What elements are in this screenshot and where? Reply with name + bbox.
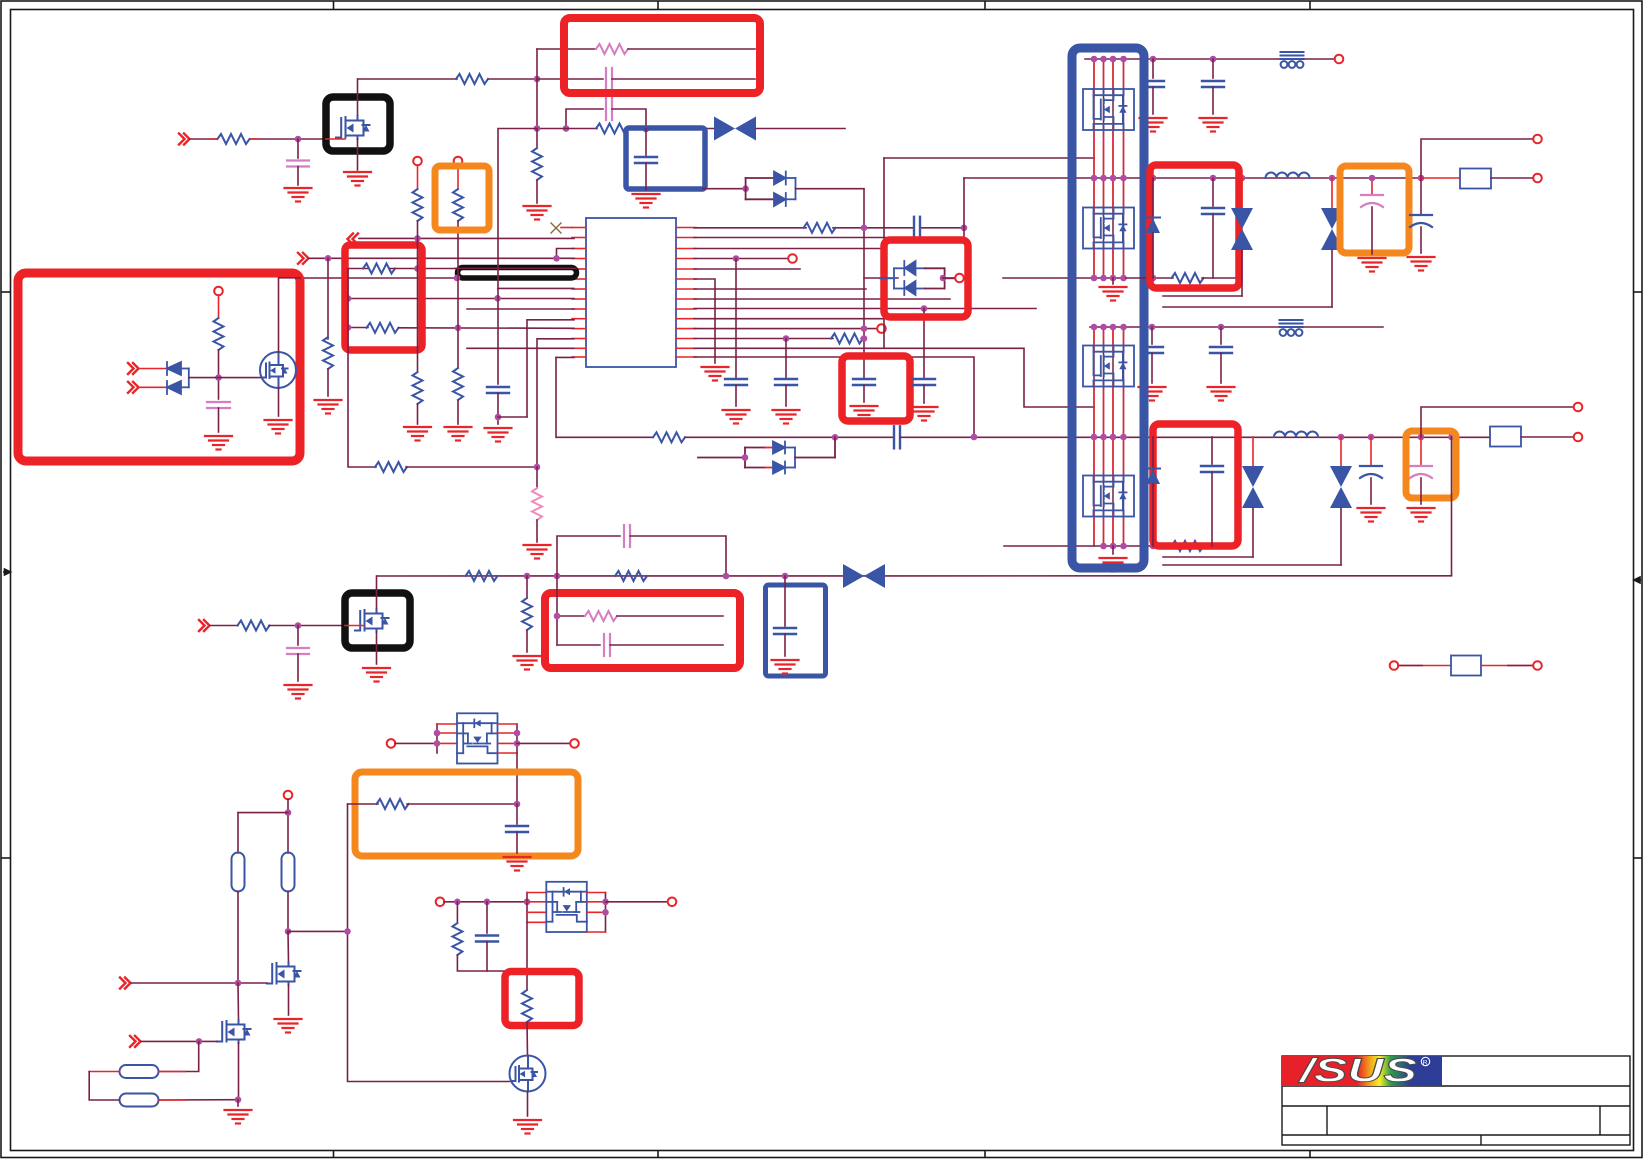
junction xyxy=(345,324,352,331)
wire pin7R row xyxy=(694,288,866,290)
wire xyxy=(536,180,538,203)
wire pin6R row xyxy=(694,279,715,363)
wire pin9R row xyxy=(694,308,1036,310)
wire mosfet verticals seg2 xyxy=(1094,327,1124,546)
wire fb row1 xyxy=(556,576,558,645)
resistor R24 (pink) xyxy=(585,611,617,621)
wire pin3 L xyxy=(557,249,575,259)
wire xyxy=(628,128,714,130)
wire xyxy=(288,930,348,932)
resistor R10 in orange box xyxy=(453,189,463,221)
node circle aux left xyxy=(1390,661,1399,670)
wire pin12 row xyxy=(537,339,574,467)
wire xyxy=(735,385,737,406)
wire xyxy=(527,1092,529,1117)
resistor RP2 (stadium) xyxy=(282,853,295,892)
resistor R20 xyxy=(238,621,270,631)
resistor R18 xyxy=(1172,541,1204,551)
wire xyxy=(488,78,537,80)
wire source to ground xyxy=(278,388,280,416)
ground xyxy=(514,656,541,670)
fuse F2 xyxy=(1490,427,1521,447)
wire pin14R row xyxy=(694,357,974,437)
wire pin6 row xyxy=(300,277,457,279)
junction xyxy=(723,573,730,580)
ferrite bead FB2 xyxy=(1280,320,1303,336)
transistor Q4 circle mosfet xyxy=(510,1056,546,1092)
wire rail1 bottom y278 junctions xyxy=(1091,275,1098,282)
resistor R1 xyxy=(218,134,250,144)
highlight box (red) output filter 1 xyxy=(1150,165,1239,288)
capacitor C25 (pink series) xyxy=(604,634,610,656)
junction xyxy=(495,414,502,421)
junction xyxy=(742,454,749,461)
left border mid arrow xyxy=(3,569,11,575)
ground xyxy=(633,194,660,208)
wire xyxy=(457,221,459,368)
wire xyxy=(407,803,517,805)
wire xyxy=(498,416,527,418)
wire vertical node xyxy=(536,49,538,129)
ground xyxy=(1100,558,1127,572)
ground xyxy=(485,428,512,442)
node chevron in2 xyxy=(128,382,139,393)
junction xyxy=(921,305,928,312)
ground xyxy=(285,188,312,202)
wire drain up xyxy=(357,79,359,115)
highlight box (red) gate resistor xyxy=(505,972,579,1026)
highlight box (red) supervisor xyxy=(18,273,300,461)
wire xyxy=(218,350,220,399)
node VIN1 input chevron xyxy=(179,134,190,145)
wire xyxy=(861,338,864,340)
diode D3 xyxy=(167,362,189,375)
wire xyxy=(287,931,290,962)
resistor RP4 (stadium) xyxy=(120,1094,159,1107)
junction xyxy=(235,1096,242,1103)
resistor R21 xyxy=(466,571,498,581)
resistor R22 chain down xyxy=(526,576,528,598)
wire xyxy=(237,892,239,984)
wire rail1 top y59 xyxy=(1085,58,1281,60)
ground xyxy=(265,420,292,434)
junction xyxy=(494,295,501,302)
node circle xyxy=(284,791,293,800)
op-amp U1 controller IC xyxy=(586,218,676,367)
junctions rail3 xyxy=(1091,324,1098,331)
resistor R11 xyxy=(453,368,463,400)
wire source to ground xyxy=(357,139,359,170)
wire pin7 row xyxy=(498,287,574,289)
resistor R6 xyxy=(363,264,395,274)
wire xyxy=(1304,58,1334,60)
wire xyxy=(189,377,261,379)
wire rail2 bottom y546 xyxy=(1004,545,1236,547)
wire drain up xyxy=(376,576,378,608)
wire pin11 row xyxy=(348,327,368,329)
capacitor C4 xyxy=(635,157,657,163)
wire xyxy=(139,368,167,370)
wire pack1 right bracket xyxy=(498,724,517,753)
wire pack2 down xyxy=(526,922,528,990)
wire xyxy=(237,1100,239,1106)
wire xyxy=(269,625,345,627)
node circle pack2 left xyxy=(436,898,445,907)
wire xyxy=(395,742,437,744)
junction xyxy=(1150,275,1157,282)
wire xyxy=(923,385,925,403)
left border tick 1 xyxy=(1,291,11,293)
wire pack2 right bracket xyxy=(587,893,606,933)
wire pin1 stub xyxy=(561,227,572,229)
wire xyxy=(237,983,240,1020)
wire xyxy=(863,189,865,379)
wire pack1 to snub xyxy=(516,753,518,804)
wire xyxy=(89,1072,119,1101)
transistor Q6 mosfet xyxy=(217,1020,251,1043)
junction xyxy=(344,928,351,935)
wire pack1 left bracket xyxy=(437,724,457,753)
wire pack2 left bracket xyxy=(527,893,546,923)
left border tick 2 xyxy=(1,857,11,859)
wire maroon part xyxy=(1400,665,1422,667)
ground xyxy=(275,1019,302,1033)
capacitor C12 drop xyxy=(1152,59,1154,78)
resistor R12 xyxy=(323,337,333,369)
node circle xyxy=(877,324,886,333)
resistor RP3 (stadium) xyxy=(120,1065,159,1078)
wire pin2 row xyxy=(359,237,574,239)
wire rail1 left corner xyxy=(963,178,965,240)
node circle xyxy=(1335,55,1344,64)
wire xyxy=(297,654,299,681)
transistor module M4 xyxy=(1083,476,1134,517)
ground xyxy=(851,406,878,420)
wire R12 chain xyxy=(327,258,329,339)
wire pin2R row xyxy=(694,237,957,239)
capacitor C11 xyxy=(913,379,935,385)
junction xyxy=(1329,175,1336,182)
ground xyxy=(1200,118,1227,132)
node chevron in1 xyxy=(128,363,139,374)
top border tick 2 xyxy=(657,1,659,10)
ground xyxy=(315,400,342,414)
wire gate xyxy=(326,138,345,140)
transistor Q1 mosfet xyxy=(336,116,370,139)
ground xyxy=(205,436,232,450)
junction xyxy=(524,968,531,975)
resistor R25 xyxy=(377,799,409,809)
junction xyxy=(563,125,570,132)
top border tick 1 xyxy=(333,1,335,10)
IC left pin stubs xyxy=(572,228,586,358)
wire pin1R row xyxy=(694,227,806,229)
capacitor C18 polarized (pink) xyxy=(1361,175,1383,254)
highlight box (orange) snubber M xyxy=(355,772,578,856)
wire stub xyxy=(159,1099,186,1101)
wire diode bracket xyxy=(188,369,190,388)
ground xyxy=(1208,387,1235,401)
ground xyxy=(285,685,312,699)
ground xyxy=(225,1110,252,1124)
inductor L2 xyxy=(1274,432,1318,438)
wire xyxy=(417,404,419,424)
wire pin13R row xyxy=(694,348,1094,407)
wire over bus xyxy=(455,267,576,269)
wire xyxy=(237,813,239,853)
wire rail2 right riser xyxy=(1451,437,1453,576)
ground xyxy=(723,410,750,424)
junction xyxy=(643,126,650,133)
junction xyxy=(742,185,749,192)
wire xyxy=(390,268,456,270)
wire xyxy=(287,892,289,932)
wire xyxy=(526,1022,529,1056)
junction xyxy=(940,275,947,282)
capacitor C23 (pink) xyxy=(287,648,309,654)
wire to connector 2 xyxy=(1421,407,1573,437)
resistor R15 xyxy=(214,318,224,350)
junction xyxy=(235,980,242,987)
wire xyxy=(297,167,299,186)
node test point circle xyxy=(454,157,463,166)
wire top to snubber xyxy=(537,48,596,50)
transistor pack U2 xyxy=(457,713,498,763)
ASUS logo xyxy=(1282,1052,1442,1089)
wire xyxy=(348,803,379,805)
wire xyxy=(131,982,267,984)
wire xyxy=(900,436,1490,438)
junction xyxy=(783,335,790,342)
junction xyxy=(553,255,560,262)
ground xyxy=(1408,508,1435,522)
node test point circle xyxy=(413,157,422,166)
wire xyxy=(628,48,755,50)
transistor Q3 mosfet xyxy=(355,609,389,632)
node circle xyxy=(1533,174,1542,183)
wire xyxy=(557,615,585,617)
wire loop cap xyxy=(566,109,603,129)
junction xyxy=(345,295,352,302)
fuse F3 xyxy=(1451,656,1481,676)
wire xyxy=(943,277,955,279)
wire rail1 bottom continuation xyxy=(1126,277,1173,279)
diode TVS D7 (bowtie) xyxy=(1163,178,1253,296)
wire xyxy=(238,1043,240,1100)
capacitor C24 (pink series) xyxy=(624,525,630,547)
junction xyxy=(832,434,839,441)
wire xyxy=(417,221,419,372)
wire pin5 row xyxy=(348,268,368,270)
capacitor C10 xyxy=(853,379,875,385)
wire xyxy=(89,1071,119,1073)
node input chevron xyxy=(298,253,309,264)
ground xyxy=(1100,287,1127,301)
highlight box (red) snubber xyxy=(564,18,760,93)
junction xyxy=(514,801,521,808)
highlight box (red) output filter 2 xyxy=(1153,424,1238,546)
bus cable (black) xyxy=(458,268,577,279)
ground xyxy=(363,668,390,682)
highlight box (blue) cap 2 xyxy=(766,585,826,676)
wire xyxy=(785,385,787,406)
wire pin4 row xyxy=(309,257,574,259)
wire xyxy=(358,78,457,80)
capacitor C27 xyxy=(506,804,528,853)
capacitor C8 xyxy=(725,379,747,385)
junction xyxy=(285,928,292,935)
wire xyxy=(536,520,538,542)
junction xyxy=(534,125,541,132)
wire pin14 row xyxy=(556,356,574,358)
wire xyxy=(417,165,419,189)
wire xyxy=(139,386,167,388)
junction xyxy=(285,809,292,816)
wire gate stub xyxy=(345,625,364,627)
junction xyxy=(554,613,561,620)
capacitor C28 xyxy=(476,902,498,971)
wire resistor to ground chain xyxy=(536,129,538,149)
wire xyxy=(630,536,726,576)
wire xyxy=(288,985,290,1015)
ground xyxy=(773,410,800,424)
right border tick 2 xyxy=(1634,857,1643,859)
wire rail3 y327 xyxy=(1090,326,1279,328)
capacitor C16 series xyxy=(894,426,900,448)
resistor R8 xyxy=(413,189,423,221)
diode TVS D12 (bowtie inline) xyxy=(843,564,885,588)
junction xyxy=(554,573,561,580)
wire rail4 y437 from pin14 xyxy=(556,357,653,437)
highlight box (red) dividers xyxy=(345,245,422,350)
highlight box (orange) xyxy=(435,166,489,230)
resistor R27 xyxy=(522,990,532,1022)
junction xyxy=(861,225,868,232)
junction xyxy=(861,335,868,342)
junctions rail4 xyxy=(971,434,978,441)
junction xyxy=(454,275,461,282)
wire xyxy=(833,227,914,229)
capacitor C17 xyxy=(1202,178,1224,278)
wire xyxy=(617,615,723,617)
capacitor C1 (pink) xyxy=(287,161,309,167)
wire x348 vertical xyxy=(348,269,376,468)
wire xyxy=(645,129,647,157)
resistor R5 xyxy=(532,148,542,180)
capacitor C15 drop xyxy=(1220,327,1222,344)
top border tick 3 xyxy=(984,1,986,10)
node signal chevron left xyxy=(348,234,359,245)
wire pin10R row xyxy=(694,318,890,320)
wire red segments at modules xyxy=(1094,63,1124,542)
resistor R4 xyxy=(596,124,628,134)
wire xyxy=(756,128,845,130)
node circle xyxy=(788,254,797,263)
wire xyxy=(1491,177,1533,179)
diode D5 pair xyxy=(880,261,955,295)
ground stub xyxy=(1112,546,1114,554)
resistor RP1 (stadium) xyxy=(232,853,245,892)
junction xyxy=(733,255,740,262)
junction xyxy=(295,136,302,143)
transistor Q5 mosfet xyxy=(267,962,301,985)
wire xyxy=(536,467,538,488)
wire drain up and out xyxy=(279,278,301,352)
no-connect X pin1 xyxy=(551,223,561,233)
wire xyxy=(1398,665,1451,667)
wire source down xyxy=(376,632,378,664)
ground xyxy=(772,660,799,674)
ground xyxy=(524,545,551,559)
ground xyxy=(1408,257,1435,271)
wire xyxy=(159,1041,199,1071)
transistor module M2 xyxy=(1083,208,1134,249)
bottom border tick 3 xyxy=(984,1151,986,1158)
IC right pin stubs xyxy=(676,228,696,358)
wire pin10 row xyxy=(527,320,574,417)
wire xyxy=(612,78,755,80)
ground xyxy=(504,857,531,871)
highlight box (red) xyxy=(842,356,910,421)
resistor R2 xyxy=(456,74,488,84)
node chevron xyxy=(130,1036,141,1047)
wire xyxy=(287,799,289,853)
node circle xyxy=(955,274,964,283)
wire xyxy=(457,400,459,424)
ground xyxy=(404,427,431,441)
wire pin8 row xyxy=(348,298,574,300)
junctions rail2 xyxy=(1091,175,1098,182)
highlight box (blue) power block xyxy=(1072,48,1144,568)
wire pin8R row xyxy=(694,298,950,300)
node circle aux right xyxy=(1533,661,1542,670)
highlight box (blue) cap xyxy=(626,128,705,189)
wire stub xyxy=(159,1071,186,1073)
diode TVS D11 (bowtie) xyxy=(1163,437,1352,565)
bottom border tick 4 xyxy=(1309,1151,1311,1158)
wire maroon part xyxy=(1508,665,1533,667)
wire pin3R row xyxy=(694,248,884,250)
capacitor C9 xyxy=(775,379,797,385)
right border tick 1 xyxy=(1634,291,1643,293)
wire xyxy=(685,436,894,438)
capacitor C14 drop xyxy=(1151,327,1153,344)
node circle xyxy=(1574,433,1583,442)
wire xyxy=(920,227,964,229)
bottom border tick 1 xyxy=(333,1151,335,1158)
capacitor C22 polarized (pink) xyxy=(1410,437,1432,504)
capacitor C26 xyxy=(774,576,796,656)
wire xyxy=(610,644,723,646)
wire xyxy=(497,393,499,424)
diode TVS D10 (bowtie) xyxy=(1163,437,1264,557)
capacitor C20 xyxy=(1201,437,1223,546)
junction xyxy=(1418,175,1425,182)
highlight box (red) xyxy=(884,240,968,317)
capacitor C21 polarized xyxy=(1360,437,1382,504)
resistor R28 xyxy=(653,432,685,442)
transistor Q1 black box xyxy=(326,97,390,151)
SECTION: title block xyxy=(1282,1056,1630,1145)
wire cap column x498 xyxy=(498,129,537,385)
ferrite bead FB1 xyxy=(1281,52,1304,68)
wire xyxy=(406,466,537,468)
right border mid arrow xyxy=(1634,577,1641,583)
node circle xyxy=(1533,135,1542,144)
ground stub xyxy=(1112,278,1114,284)
junction row rail1 top xyxy=(1091,56,1098,63)
wire xyxy=(863,385,865,402)
